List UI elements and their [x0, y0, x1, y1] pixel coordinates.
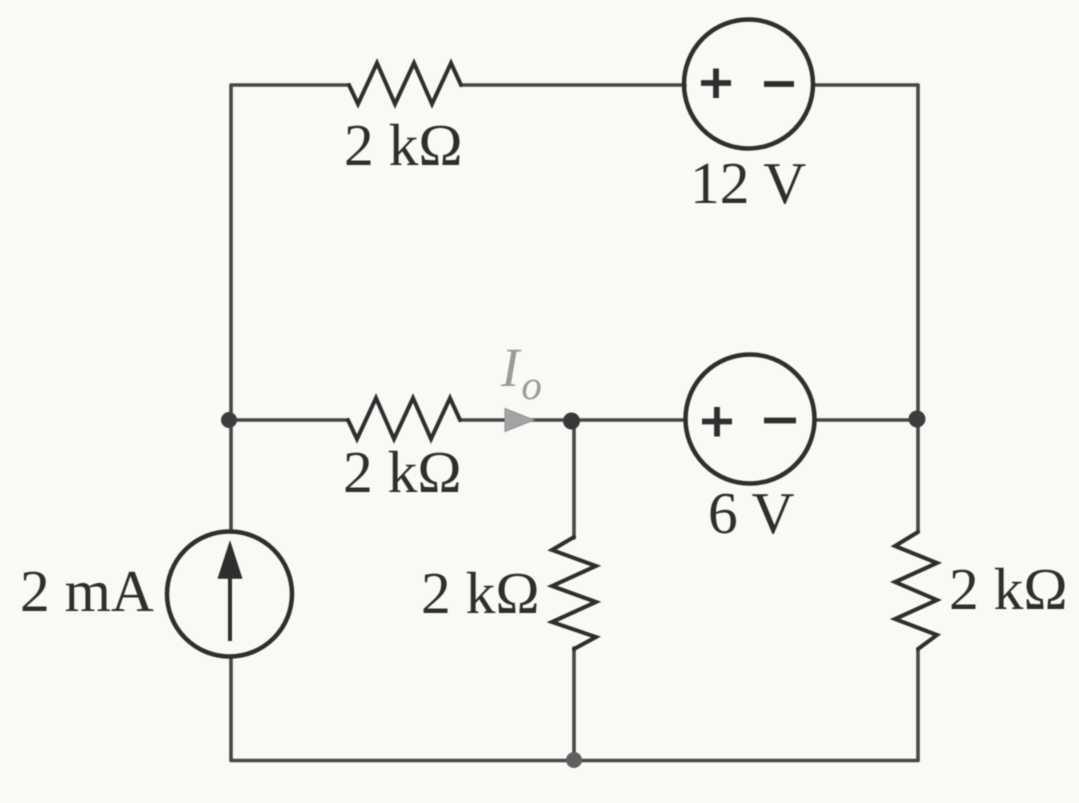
svg-text:2 kΩ: 2 kΩ: [343, 439, 462, 505]
svg-text:2 kΩ: 2 kΩ: [949, 556, 1068, 622]
svg-text:6 V: 6 V: [708, 480, 795, 546]
svg-text:2 kΩ: 2 kΩ: [344, 112, 463, 178]
svg-text:2 mA: 2 mA: [20, 558, 154, 624]
svg-text:2 kΩ: 2 kΩ: [421, 560, 540, 626]
svg-text:12 V: 12 V: [690, 150, 806, 216]
